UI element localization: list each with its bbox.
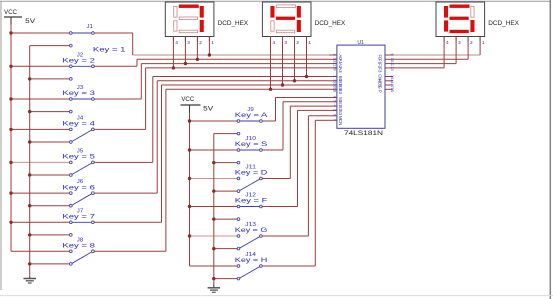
- pin U1.21 A2: [329, 62, 343, 69]
- svg-text:F3: F3: [378, 67, 383, 73]
- svg-text:Key = 6: Key = 6: [62, 184, 95, 191]
- svg-text:1: 1: [333, 75, 337, 77]
- wire VCC feed to J10 upper throw: [188, 148, 237, 151]
- wire VCC feed to J13 upper throw: [188, 234, 237, 237]
- svg-text:3: 3: [458, 40, 461, 46]
- wire ground feed to J10 lower throw: [212, 161, 237, 164]
- switch J3 SPDT Key = 3: [62, 85, 95, 113]
- svg-text:B3: B3: [338, 89, 343, 95]
- pin U1.22 B1: [329, 79, 343, 86]
- ground symbol (left): [24, 277, 37, 284]
- svg-text:8: 8: [333, 114, 337, 116]
- display U3 DCD_HEX 7-segment: [262, 2, 345, 46]
- svg-text:Key = G: Key = G: [235, 227, 268, 234]
- switch J11 SPDT Key = D: [235, 165, 268, 193]
- svg-text:VCC: VCC: [4, 10, 17, 16]
- wire net B2: J7 common to U1 pin B2 and display: [94, 37, 329, 223]
- op IC U1 74LS181N ALU: [337, 40, 385, 137]
- wire ground rail left: [29, 46, 31, 277]
- svg-text:2: 2: [470, 40, 473, 46]
- wire net S3: J12 common to U1: [262, 110, 329, 206]
- svg-text:DCD_HEX: DCD_HEX: [488, 20, 519, 27]
- svg-text:1: 1: [482, 40, 485, 46]
- wire net S0: J9 common to U1: [262, 98, 329, 122]
- wire ground feed to J5 lower throw: [28, 173, 69, 176]
- pin U1.13 F3: [378, 66, 394, 73]
- svg-text:2: 2: [333, 54, 337, 56]
- wire VCC feed to J12 upper throw: [188, 205, 237, 208]
- switch J6 SPDT Key = 6: [62, 179, 95, 207]
- wire VCC feed to J7 upper throw: [9, 221, 69, 224]
- switch J1 SPDT Key = 1: [69, 24, 126, 53]
- svg-text:Key = H: Key = H: [235, 257, 267, 264]
- wire VCC feed to J4 upper throw: [9, 128, 69, 131]
- wire net B1: J6 common to U1 pin B1 and display: [94, 37, 329, 194]
- pin U1.2 A0: [329, 54, 343, 61]
- pin U1.7 CN: [329, 119, 343, 126]
- wire net A3: J4 common to U1 pin A3 and display: [94, 37, 329, 130]
- wire net A1: J2 common to U1 pin A1 and display: [94, 37, 329, 67]
- svg-text:A3: A3: [338, 67, 343, 73]
- svg-text:7: 7: [333, 119, 337, 121]
- svg-text:Key = 7: Key = 7: [62, 214, 95, 221]
- svg-text:4: 4: [333, 105, 337, 107]
- pin U1.1 B0: [329, 75, 343, 82]
- svg-text:Key = D: Key = D: [235, 170, 268, 177]
- svg-text:Key = 1: Key = 1: [93, 46, 126, 53]
- switch J12 SPDT Key = F: [235, 193, 268, 221]
- svg-text:U1: U1: [357, 40, 364, 46]
- svg-text:5: 5: [333, 100, 337, 102]
- pin U1.3 S3: [329, 109, 343, 116]
- pin U1.19 A3: [329, 66, 343, 73]
- pin U1.6 S0: [329, 96, 343, 103]
- svg-text:19: 19: [333, 66, 337, 70]
- svg-text:2: 2: [296, 40, 299, 46]
- wire net S1: J10 common to U1: [262, 102, 329, 150]
- svg-text:Key = 2: Key = 2: [62, 58, 95, 65]
- svg-text:VCC: VCC: [181, 97, 194, 103]
- svg-text:5V: 5V: [203, 107, 213, 113]
- svg-text:18: 18: [333, 88, 337, 92]
- wire net A2: J3 common to U1 pin A2 and display: [94, 37, 329, 100]
- wire net B0: J5 common to U1 pin B0 and display: [94, 37, 329, 163]
- wire VCC feed to J8 upper throw: [11, 250, 69, 252]
- wire VCC feed to J9 upper throw: [188, 119, 237, 122]
- switch J4 SPDT Key = 4: [62, 115, 95, 143]
- wire net F0: U1 output to display U4: [393, 37, 480, 56]
- wire VCC feed to J3 upper throw: [9, 97, 69, 100]
- wire VCC feed to J11 upper throw: [188, 177, 237, 180]
- switch J2 SPDT Key = 2: [62, 52, 95, 80]
- svg-text:Key = 4: Key = 4: [62, 121, 95, 128]
- wire net S2: J11 common to U1: [262, 106, 329, 178]
- wire ground feed to J2 lower throw: [28, 77, 69, 80]
- wire ground feed to J14 lower throw: [212, 277, 237, 280]
- wire VCC rail middle: [189, 113, 191, 267]
- wire net B3: J8 common to U1 pin B3 and display: [94, 37, 329, 252]
- wire VCC feed to J5 upper throw: [9, 161, 69, 164]
- wire ground feed to J1 lower throw: [30, 45, 70, 47]
- wire VCC feed to J6 upper throw: [9, 191, 69, 194]
- svg-text:74LS181N: 74LS181N: [344, 130, 383, 137]
- pin U1.9 F0: [378, 54, 394, 61]
- svg-text:6: 6: [333, 96, 337, 98]
- svg-text:13: 13: [390, 66, 394, 70]
- wire ground feed to J7 lower throw: [28, 233, 69, 236]
- pin U1.20 B2: [329, 84, 343, 91]
- display U2 DCD_HEX 7-segment: [165, 2, 248, 46]
- wire ground feed to J13 lower throw: [212, 247, 237, 250]
- wire VCC feed to J14 upper throw: [190, 265, 238, 267]
- svg-text:Key = 5: Key = 5: [62, 154, 95, 161]
- svg-text:1: 1: [211, 40, 214, 46]
- svg-text:4: 4: [272, 40, 275, 46]
- switch J10 SPDT Key = S: [235, 136, 267, 164]
- svg-text:4: 4: [446, 40, 449, 46]
- pin U1.15 P: [378, 88, 394, 93]
- switch J13 SPDT Key = G: [235, 222, 268, 250]
- svg-text:DCD_HEX: DCD_HEX: [218, 20, 249, 27]
- svg-text:P: P: [378, 90, 383, 93]
- wire ground feed to J3 lower throw: [28, 110, 69, 113]
- switch J7 SPDT Key = 7: [62, 208, 95, 236]
- wire ground feed to J12 lower throw: [212, 217, 237, 220]
- svg-text:3: 3: [284, 40, 287, 46]
- pin U1.4 S2: [329, 105, 343, 112]
- svg-text:3: 3: [187, 40, 190, 46]
- pin U1.16 CN4: [378, 74, 394, 83]
- svg-text:Key = S: Key = S: [235, 141, 267, 148]
- display U4 DCD_HEX 7-segment: [436, 2, 519, 46]
- pin U1.8 M: [329, 114, 343, 120]
- svg-text:2: 2: [199, 40, 202, 46]
- svg-text:CN: CN: [338, 119, 343, 125]
- svg-text:Key = A: Key = A: [235, 112, 269, 119]
- svg-text:S3: S3: [338, 110, 343, 116]
- ground symbol (middle): [208, 285, 221, 293]
- wire ground feed to J8 lower throw: [28, 262, 69, 265]
- pin U1.18 B3: [329, 88, 343, 95]
- wire net CN: J14 common to U1: [262, 120, 329, 266]
- switch J14 SPDT Key = H: [235, 252, 267, 280]
- svg-text:9: 9: [390, 54, 394, 56]
- wire net A0: J1 common to U1 pin A0 and display: [94, 33, 329, 57]
- svg-text:3: 3: [333, 109, 337, 111]
- wire VCC feed to J2 upper throw: [9, 65, 69, 68]
- wire net F3: U1 output to display U4: [393, 37, 444, 68]
- pin U1.5 S1: [329, 100, 343, 107]
- power VCC V1 5V (left): [4, 10, 35, 25]
- switch J9 SPDT Key = A: [235, 107, 269, 135]
- power VCC V2 5V (middle): [181, 97, 214, 113]
- svg-text:Key = F: Key = F: [235, 198, 268, 205]
- svg-text:4: 4: [175, 40, 178, 46]
- switch J8 SPDT Key = 8: [62, 237, 95, 265]
- svg-text:Key = 3: Key = 3: [62, 90, 95, 97]
- svg-text:J1: J1: [87, 24, 93, 30]
- wire ground feed to J6 lower throw: [28, 204, 69, 207]
- switch J5 SPDT Key = 5: [62, 148, 95, 176]
- pin U1.11 F2: [378, 62, 394, 69]
- wire ground feed to J11 lower throw: [212, 189, 237, 192]
- wire VCC rail left: [10, 25, 12, 252]
- svg-text:15: 15: [390, 88, 394, 92]
- wire net F2: U1 output to display U4: [393, 37, 456, 64]
- pin U1.23 A1: [329, 58, 343, 65]
- pin U1.14 AEB: [378, 78, 394, 87]
- wire ground feed to J9 lower throw: [214, 133, 237, 135]
- pin U1.10 F1: [378, 58, 394, 65]
- pin U1.17 G: [378, 84, 394, 90]
- wire VCC feed to J1 upper throw: [9, 31, 69, 34]
- svg-text:5V: 5V: [25, 19, 35, 25]
- wire ground rail middle: [213, 134, 215, 285]
- wire net M: J13 common to U1: [262, 116, 329, 236]
- svg-text:Key = 8: Key = 8: [62, 243, 95, 250]
- svg-text:DCD_HEX: DCD_HEX: [315, 20, 346, 27]
- wire ground feed to J4 lower throw: [28, 140, 69, 143]
- wire net F1: U1 output to display U4: [393, 37, 468, 60]
- svg-text:1: 1: [308, 40, 311, 46]
